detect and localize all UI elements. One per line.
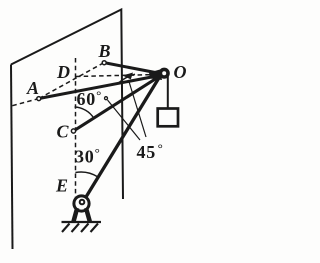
svg-text:A: A (26, 78, 39, 98)
svg-text:60°: 60° (77, 88, 103, 110)
svg-text:45°: 45° (137, 141, 164, 163)
svg-text:30°: 30° (75, 145, 101, 167)
svg-text:O: O (174, 62, 187, 82)
svg-text:C: C (56, 122, 69, 142)
svg-text:E: E (55, 176, 68, 196)
svg-text:D: D (56, 62, 70, 82)
svg-text:B: B (97, 41, 110, 61)
